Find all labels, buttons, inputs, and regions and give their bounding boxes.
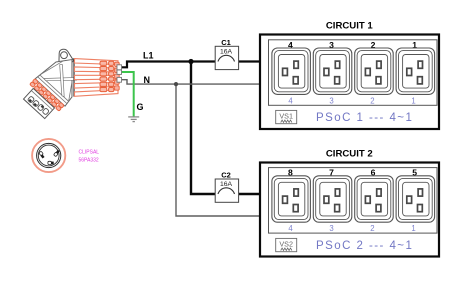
outlet numbers top C1 (288, 40, 417, 50)
svg-text:CIRCUIT 2: CIRCUIT 2 (326, 148, 373, 159)
wire L1 vertical feed to C2 (191, 62, 260, 195)
wire L1 horizontal from plug to CIRCUIT 1 (120, 62, 261, 68)
end cap with wire exits (117, 65, 122, 82)
breaker C1 box (215, 38, 238, 70)
svg-text:3: 3 (329, 96, 333, 105)
outlet numbers bottom C2 (blue) (288, 224, 415, 233)
svg-text:3: 3 (329, 224, 333, 233)
outlets CIRCUIT 2 (272, 176, 435, 222)
cone body (35, 50, 91, 106)
cone facet lines (38, 56, 87, 104)
svg-text:PSoC 1 --- 4~1: PSoC 1 --- 4~1 (316, 112, 413, 124)
wire G green to ground (120, 72, 134, 117)
svg-text:G: G (137, 102, 144, 112)
junction dot L1 (188, 59, 193, 64)
svg-text:C2: C2 (221, 171, 231, 180)
sensor VS1 (276, 110, 297, 123)
cable gland rib blocks (100, 61, 114, 91)
left pin slot (38, 151, 45, 158)
svg-text:16A: 16A (220, 49, 233, 56)
X-cross needles (44, 62, 80, 97)
outlet 2 (355, 48, 394, 94)
earth pin slot (48, 161, 52, 164)
outlet 8 (272, 176, 311, 222)
svg-text:CLIPSAL: CLIPSAL (79, 150, 100, 156)
svg-text:4: 4 (288, 224, 293, 233)
svg-text:N: N (144, 75, 151, 85)
svg-text:2: 2 (370, 96, 374, 105)
svg-text:CIRCUIT 1: CIRCUIT 1 (326, 20, 374, 31)
outlets CIRCUIT 1 (272, 48, 435, 94)
outlet numbers top C2 (288, 168, 417, 178)
outlet numbers bottom C1 (blue) (288, 96, 415, 105)
svg-text:VS1: VS1 (279, 112, 293, 121)
horizontal body stripes section (74, 58, 119, 97)
outlet 5 (396, 176, 435, 222)
wire N vertical feed to CIRCUIT 2 (176, 84, 260, 216)
right pin slot (54, 150, 60, 157)
svg-text:4: 4 (288, 96, 293, 105)
svg-text:1: 1 (411, 96, 415, 105)
CIRCUIT 1 outer box (260, 35, 439, 130)
svg-text:PSoC 2 --- 4~1: PSoC 2 --- 4~1 (316, 240, 413, 252)
junction dot N (174, 82, 178, 86)
svg-text:16A: 16A (220, 181, 233, 188)
CIRCUIT 2 inner rect (269, 168, 438, 234)
outlet 6 (355, 176, 394, 222)
svg-text:1: 1 (411, 224, 415, 233)
CIRCUIT 1 inner rect (269, 40, 438, 106)
sensor VS2 (276, 238, 297, 251)
outlet 7 (313, 176, 352, 222)
svg-text:L1: L1 (143, 51, 154, 61)
svg-text:C1: C1 (221, 38, 231, 47)
outlet 1 (396, 48, 435, 94)
mounting ear (59, 49, 74, 64)
connector CLIPSAL 56PA332 symbol (32, 139, 65, 172)
ground symbol (128, 117, 139, 122)
outlet 3 (313, 48, 352, 94)
face block with pin cavities (24, 88, 55, 118)
svg-text:56PA332: 56PA332 (79, 157, 99, 163)
wire N horizontal from plug to CIRCUIT 1 (120, 80, 261, 84)
svg-text:VS2: VS2 (279, 240, 293, 249)
angled barrel group (19, 50, 91, 123)
svg-text:2: 2 (370, 224, 374, 233)
CIRCUIT 2 outer box (260, 163, 439, 257)
breaker C2 box (215, 171, 238, 203)
gland end tabs (115, 62, 120, 90)
orange rib ring band (30, 79, 65, 112)
joint vertical edge (73, 58, 75, 97)
plug CEE angled body (19, 49, 121, 123)
outlet 4 (272, 48, 311, 94)
